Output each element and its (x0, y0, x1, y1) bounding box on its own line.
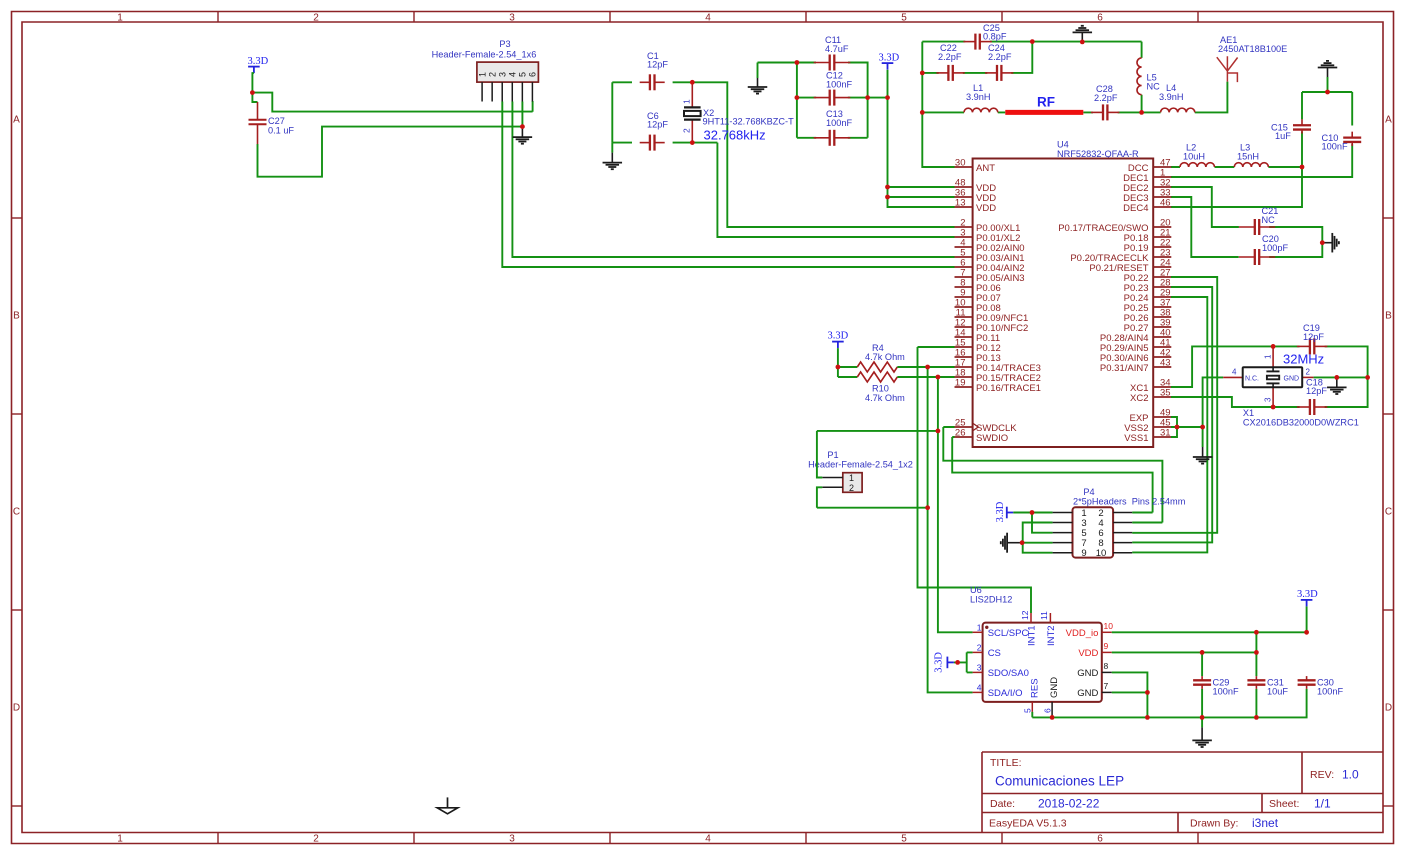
wire net 3.3D rail (C11/C12/C13, U4 VDD) (758, 63, 955, 208)
svg-text:1: 1 (477, 72, 487, 77)
svg-text:4.7k Ohm: 4.7k Ohm (865, 393, 905, 403)
svg-text:100nF: 100nF (826, 118, 852, 128)
capacitor C31 (1247, 676, 1288, 696)
ground below X1 (1327, 377, 1347, 394)
capacitor C27 (249, 102, 295, 144)
svg-text:CX2016DB32000D0WZRC1: CX2016DB32000D0WZRC1 (1243, 418, 1359, 428)
capacitor C28 (1091, 84, 1119, 120)
svg-text:D: D (13, 703, 20, 714)
junction 3.3D/C27 (250, 90, 255, 95)
svg-text:4.7k Ohm: 4.7k Ohm (865, 352, 905, 362)
svg-text:2.2pF: 2.2pF (988, 52, 1012, 62)
svg-text:12: 12 (1020, 610, 1030, 620)
header P3 (432, 39, 539, 102)
junction rail GND78 (1145, 715, 1150, 720)
svg-text:11: 11 (1039, 611, 1049, 620)
inductor L2 (1180, 143, 1215, 168)
crystal X1 (1223, 346, 1359, 427)
ground arrow symbol bottom-left (437, 797, 457, 813)
svg-text:100nF: 100nF (1322, 142, 1348, 152)
svg-text:3: 3 (1264, 397, 1273, 402)
wire net RF top row (C25/C22-C24/L5) (922, 42, 1141, 167)
wire P1.2 stub (817, 487, 822, 507)
svg-text:7: 7 (1104, 681, 1109, 691)
svg-text:8: 8 (1104, 661, 1109, 671)
junction VSS2/EXP (1175, 425, 1180, 430)
junction rail C29 (1200, 715, 1205, 720)
wire P3.3 to U4 P0.04 (502, 102, 954, 268)
junction R10 right (936, 375, 941, 380)
svg-text:3: 3 (509, 834, 515, 845)
antenna AE1 (1217, 35, 1288, 82)
capacitor C6 (640, 111, 669, 151)
wire net EXP/VSS (1171, 417, 1203, 437)
wire net DEC3/C20 (1171, 197, 1322, 257)
svg-text:C: C (1385, 507, 1392, 518)
svg-text:TITLE:: TITLE: (990, 757, 1022, 769)
svg-text:GND: GND (1077, 688, 1098, 699)
svg-text:1: 1 (117, 834, 123, 845)
svg-text:46: 46 (1160, 198, 1171, 209)
svg-text:VDD: VDD (976, 203, 996, 214)
wire P3.5 to GND (521, 102, 523, 127)
svg-text:3.3D: 3.3D (879, 53, 900, 64)
capacitor C15 (1271, 119, 1311, 141)
svg-text:12pF: 12pF (1303, 332, 1324, 342)
svg-text:ANT: ANT (976, 163, 995, 174)
junction C12 left (795, 95, 800, 100)
ground at P3.5 (513, 127, 533, 144)
crystal X2 (682, 82, 795, 142)
svg-text:30: 30 (955, 158, 966, 169)
inductor L5 (1137, 58, 1160, 95)
svg-text:31: 31 (1160, 428, 1171, 439)
wire net P0.15/TRACE2 (R10 to U4, P1.1, U6 SCL) (817, 377, 973, 632)
junction C12 right (865, 95, 870, 100)
capacitor C24 (985, 43, 1013, 81)
svg-text:1.0: 1.0 (1342, 768, 1359, 782)
svg-text:Header-Female-2.54_1x6: Header-Female-2.54_1x6 (432, 50, 537, 60)
junction P4.7 (1020, 540, 1025, 545)
svg-text:10: 10 (1104, 621, 1114, 631)
svg-text:3: 3 (977, 662, 982, 672)
junction P4.1 (1030, 510, 1035, 515)
svg-text:3.3D: 3.3D (995, 501, 1006, 522)
svg-text:35: 35 (1160, 388, 1171, 399)
wire net 3.3D to R4/R10 (838, 348, 857, 377)
capacitor C22 (936, 43, 964, 81)
junction VSS2 rail (1200, 425, 1205, 430)
ground at P4 (rotated left) (1001, 533, 1022, 553)
capacitor C13 (814, 109, 853, 146)
header P1 (808, 450, 913, 493)
svg-text:19: 19 (955, 378, 966, 389)
svg-text:1uF: 1uF (1275, 131, 1291, 141)
junction top GND (1080, 40, 1085, 45)
svg-text:U6: U6 (970, 585, 982, 595)
wire net P0.14/TRACE3 (R4 to U4, P1.2, U6 SDA) (817, 367, 973, 692)
svg-text:VDD: VDD (1078, 648, 1098, 659)
ground below rail (1201, 717, 1203, 727)
svg-text:4: 4 (705, 13, 711, 24)
node 3.3D power at U6 CS (rotated) (934, 652, 954, 673)
svg-text:100nF: 100nF (826, 80, 852, 90)
wire net ANT row (L1-RF-C28-L4-AE1) (922, 42, 1227, 113)
svg-text:2: 2 (313, 13, 319, 24)
resistor R10 (857, 372, 905, 403)
svg-text:SCL/SPC: SCL/SPC (988, 628, 1029, 639)
svg-text:A: A (13, 115, 20, 126)
svg-text:12pF: 12pF (1306, 386, 1327, 396)
inductor L4 (1159, 83, 1195, 112)
title block (982, 752, 1383, 833)
node 3.3D power bottom right (1297, 589, 1318, 606)
junction C19/C18 right (1365, 375, 1370, 380)
svg-text:NRF52832-QFAA-R: NRF52832-QFAA-R (1057, 149, 1139, 159)
svg-text:2*5pHeaders Pins 2.54mm: 2*5pHeaders Pins 2.54mm (1073, 497, 1186, 507)
junction X1.1/C19 (1271, 344, 1276, 349)
svg-text:D: D (1385, 703, 1392, 714)
svg-text:5: 5 (1023, 708, 1033, 713)
svg-text:5: 5 (518, 72, 528, 77)
svg-text:100nF: 100nF (1317, 687, 1343, 697)
capacitor C19 (1297, 323, 1327, 354)
svg-text:2: 2 (849, 483, 854, 493)
svg-text:10uF: 10uF (1267, 687, 1288, 697)
junction C6/X2.2 (690, 140, 695, 145)
svg-text:P0.31/AIN7: P0.31/AIN7 (1100, 363, 1149, 374)
inductor L3 (1234, 143, 1268, 168)
node 3.3D power at P4 (rotated) (995, 501, 1013, 522)
svg-text:32MHz: 32MHz (1283, 352, 1324, 367)
svg-text:10: 10 (1096, 548, 1107, 559)
node 3.3D power at C12 (879, 53, 900, 70)
junction C25/C24 (1030, 39, 1035, 44)
svg-text:P0.16/TRACE1: P0.16/TRACE1 (976, 383, 1041, 394)
svg-text:NC: NC (1262, 215, 1276, 225)
wire net XC2 to X1.3/C18 (1171, 397, 1273, 407)
svg-text:1: 1 (682, 99, 692, 104)
junction GND7/8 (1145, 690, 1150, 695)
svg-text:Header-Female-2.54_1x2: Header-Female-2.54_1x2 (808, 460, 913, 470)
ground below VSS (1193, 447, 1213, 464)
capacitor C1 (640, 51, 669, 90)
svg-text:2: 2 (682, 128, 692, 133)
capacitor C30 (1298, 676, 1344, 696)
junction L5/C28/L4 (1139, 110, 1144, 115)
svg-text:B: B (13, 311, 20, 322)
svg-text:2: 2 (1306, 368, 1311, 377)
svg-text:3.3D: 3.3D (248, 56, 269, 67)
junction VDD36 (885, 195, 890, 200)
wire net GND to P4.3/P4.7/P4.9 (1022, 523, 1053, 553)
wire net C19 row (1273, 346, 1368, 377)
junction rail C31 (1254, 715, 1259, 720)
svg-text:4: 4 (507, 72, 517, 77)
svg-text:1/1: 1/1 (1314, 797, 1331, 811)
wire P3.4 to U4 P0.03 (512, 102, 954, 258)
svg-text:XC2: XC2 (1130, 393, 1148, 404)
svg-text:C: C (13, 507, 20, 518)
wire net XL1 (C1/X2.1 to U4 P0.00) (612, 82, 954, 227)
resistor R4 (857, 343, 905, 372)
header P4 (1053, 487, 1186, 559)
inductor L1 (964, 83, 998, 112)
junction R4 left (836, 365, 841, 370)
wire net 3.3D to P3.6 and C27 (252, 73, 532, 177)
svg-text:2450AT18B100E: 2450AT18B100E (1218, 44, 1287, 54)
wire net DEC1/C10 (1171, 92, 1352, 177)
svg-text:9HT11-32.768KBZC-T: 9HT11-32.768KBZC-T (703, 117, 795, 127)
capacitor C29 (1193, 676, 1239, 696)
svg-text:3.3D: 3.3D (1297, 589, 1318, 600)
junction P3.5/GND (520, 124, 525, 129)
wire net C31 tie (1255, 632, 1257, 676)
capacitor C12 (814, 71, 853, 106)
svg-text:SDO/SA0: SDO/SA0 (988, 668, 1029, 679)
svg-text:REV:: REV: (1310, 769, 1334, 781)
junction top-right GND (1325, 90, 1330, 95)
wire net P0.22 to P4.6 (1132, 277, 1217, 533)
svg-text:P3: P3 (499, 39, 510, 49)
svg-text:CS: CS (988, 648, 1001, 659)
wire net P0.24 to P4.10 (1132, 297, 1207, 552)
junction P1.1 (936, 429, 941, 434)
svg-text:X1: X1 (1243, 408, 1254, 418)
wire net P0.23 to P4.8 (1132, 287, 1212, 542)
wire net VDD_io (3.3D right) (1112, 606, 1307, 632)
wire net 3.3D to U6 CS/SDO (954, 652, 973, 672)
svg-text:P4: P4 (1083, 487, 1094, 497)
svg-text:4: 4 (977, 682, 982, 692)
ground right of C21/C20 (1322, 233, 1339, 253)
svg-text:B: B (1385, 311, 1392, 322)
node 3.3D top-left power symbol (248, 56, 269, 73)
junction C1/X2.1 (690, 80, 695, 85)
svg-text:R10: R10 (872, 384, 889, 394)
junction C22 left (920, 71, 925, 76)
svg-text:INT1: INT1 (1027, 625, 1038, 646)
svg-text:43: 43 (1160, 358, 1171, 369)
svg-text:EasyEDA V5.1.3: EasyEDA V5.1.3 (989, 818, 1067, 830)
svg-text:GND: GND (1284, 375, 1300, 382)
wire net X1.4 to VSS/GND (1203, 377, 1224, 447)
svg-text:3: 3 (497, 72, 507, 77)
svg-text:2.2pF: 2.2pF (938, 52, 962, 62)
svg-text:2018-02-22: 2018-02-22 (1038, 797, 1100, 811)
svg-text:Drawn By:: Drawn By: (1190, 818, 1238, 830)
svg-text:5: 5 (901, 13, 907, 24)
junction VDD48 (885, 185, 890, 190)
svg-text:6: 6 (1097, 834, 1103, 845)
wire net XC1 to X1.1/C19 (1171, 346, 1273, 387)
svg-text:VSS1: VSS1 (1124, 433, 1148, 444)
svg-text:DEC4: DEC4 (1123, 203, 1148, 214)
capacitor C25 (963, 23, 1006, 50)
junction rail U6.6 (1050, 715, 1055, 720)
svg-text:N.C.: N.C. (1245, 375, 1259, 382)
wire net 3.3D to P4.1/P4.5 (1013, 513, 1052, 533)
junction VDD/C29 (1200, 650, 1205, 655)
svg-text:2: 2 (487, 72, 497, 77)
junction DCC/C15 (1300, 165, 1305, 170)
ground at C6 (611, 143, 613, 153)
svg-text:100nF: 100nF (1213, 687, 1239, 697)
svg-text:0.1 uF: 0.1 uF (268, 126, 294, 136)
svg-text:3.9nH: 3.9nH (1159, 92, 1184, 102)
junction X1.3/C18 (1271, 405, 1276, 410)
svg-text:5: 5 (901, 834, 907, 845)
svg-text:INT2: INT2 (1046, 625, 1057, 646)
svg-text:10uH: 10uH (1183, 152, 1205, 162)
svg-text:1: 1 (117, 13, 123, 24)
svg-text:i3net: i3net (1252, 816, 1279, 830)
svg-text:6: 6 (528, 72, 538, 77)
svg-text:Comunicaciones LEP: Comunicaciones LEP (995, 774, 1124, 789)
svg-text:P1: P1 (827, 450, 838, 460)
junction VDD_io/C30 (1304, 630, 1309, 635)
junction RF left (920, 110, 925, 115)
svg-text:SDA/I/O: SDA/I/O (988, 688, 1023, 699)
wire net C18 row (1273, 377, 1368, 407)
svg-text:9: 9 (1081, 548, 1086, 559)
svg-text:12pF: 12pF (647, 120, 668, 130)
svg-text:4.7uF: 4.7uF (825, 44, 849, 54)
wire P1.1 stub (817, 431, 822, 478)
ground at C11 (748, 78, 768, 94)
svg-text:SWDIO: SWDIO (976, 433, 1008, 444)
svg-text:0.8pF: 0.8pF (983, 32, 1007, 42)
junction VDD_io/C31 (1254, 630, 1259, 635)
junction VDD/C31 (1254, 650, 1259, 655)
net bus RF (1005, 110, 1083, 115)
capacitor C21 (1239, 206, 1279, 235)
wire net SWDIO to P4.2 (952, 437, 1152, 513)
svg-text:Sheet:: Sheet: (1269, 798, 1299, 810)
capacitor C18 (1297, 378, 1327, 416)
junction C21/C20 GND (1320, 240, 1325, 245)
svg-text:9: 9 (1104, 641, 1109, 651)
wire net DEC2/C21 (1171, 187, 1322, 243)
junction CS bracket (955, 660, 960, 665)
wire net XL2 (C6/X2.2 to U4 P0.01) (612, 143, 954, 237)
ground top-right (inverted) (1327, 77, 1329, 92)
svg-text:32.768kHz: 32.768kHz (704, 128, 766, 143)
svg-text:2.2pF: 2.2pF (1094, 93, 1118, 103)
svg-text:GND: GND (1077, 668, 1098, 679)
capacitor C10 (1322, 132, 1362, 152)
svg-text:3.3D: 3.3D (934, 652, 945, 673)
svg-text:1: 1 (849, 473, 854, 483)
svg-text:1: 1 (1264, 354, 1273, 359)
junction P1.2 (925, 505, 930, 510)
wire net VDD row (1112, 651, 1257, 653)
wire net P0.12 to U6 INT1 (918, 347, 1032, 613)
junction X1 GND (1334, 375, 1339, 380)
svg-text:RES: RES (1029, 678, 1040, 698)
svg-text:4: 4 (705, 834, 711, 845)
svg-text:1: 1 (977, 622, 982, 632)
svg-text:2: 2 (977, 642, 982, 652)
svg-text:Date:: Date: (990, 798, 1015, 810)
svg-text:RF: RF (1037, 95, 1055, 110)
svg-text:4: 4 (1232, 368, 1237, 377)
svg-text:A: A (1385, 115, 1392, 126)
capacitor C11 (814, 35, 851, 71)
svg-text:3.3D: 3.3D (828, 331, 849, 342)
ground top (inverted) (1073, 26, 1093, 42)
op IC U4 NRF52832-QFAA-R (955, 140, 1172, 448)
capacitor C20 (1239, 234, 1289, 265)
svg-text:15nH: 15nH (1237, 152, 1259, 162)
svg-text:3: 3 (509, 13, 515, 24)
junction C11 left (795, 60, 800, 65)
svg-text:13: 13 (955, 198, 966, 209)
wire net GND pins U6 (1112, 672, 1148, 717)
wire net GND bottom rail (1032, 652, 1306, 717)
svg-text:12pF: 12pF (647, 60, 668, 70)
svg-text:6: 6 (1097, 13, 1103, 24)
svg-text:26: 26 (955, 428, 966, 439)
svg-text:NC: NC (1147, 82, 1161, 92)
IC U6 LIS2DH12 (970, 585, 1113, 717)
node 3.3D power at R4 (828, 331, 849, 349)
wire net SWDCLK to P4.4 (943, 427, 1162, 523)
svg-text:3.9nH: 3.9nH (966, 92, 991, 102)
wire net X1 GND (1314, 376, 1368, 378)
svg-text:2: 2 (313, 834, 319, 845)
svg-text:LIS2DH12: LIS2DH12 (970, 595, 1012, 605)
wire net DCC (L2/L3/C15/DEC4) (1171, 92, 1302, 207)
junction 3.3D/C12 (885, 95, 890, 100)
svg-text:C27: C27 (268, 116, 285, 126)
svg-text:VDD_io: VDD_io (1066, 628, 1099, 639)
svg-text:GND: GND (1049, 677, 1060, 698)
svg-text:6: 6 (1042, 708, 1052, 713)
wire top-right GND row (1302, 91, 1352, 93)
junction R4 right (925, 365, 930, 370)
svg-text:100pF: 100pF (1262, 243, 1288, 253)
